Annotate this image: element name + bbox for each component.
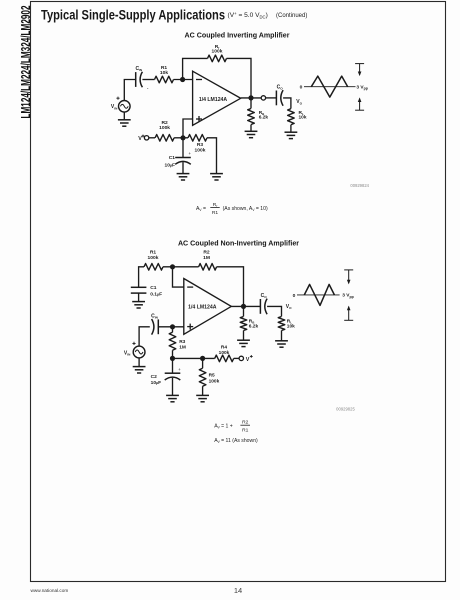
capacitor CIN (circuit 2) (151, 313, 158, 334)
svg-text:AC Coupled Non-Inverting Ampli: AC Coupled Non-Inverting Amplifier (178, 240, 299, 248)
node C : inverting junction (circuit 2) (170, 264, 175, 269)
svg-text:10k: 10k (160, 70, 168, 76)
resistor R1 10k (155, 65, 174, 83)
svg-text:100k: 100k (159, 125, 170, 131)
resistor RB 6.2k (circuit 2) (240, 306, 258, 340)
output terminal circle (261, 96, 265, 100)
wire CO to RL (circuit 2) (267, 306, 281, 316)
ground below VIN (circuit 2) (138, 358, 140, 367)
svg-text:3 Vpp: 3 Vpp (356, 85, 367, 91)
svg-text:R3: R3 (197, 142, 204, 148)
node B : bias junction (180, 135, 185, 140)
wire C1 to ground (182, 162, 184, 173)
svg-text:10k: 10k (287, 323, 295, 329)
svg-text:6.2k: 6.2k (249, 323, 259, 329)
gain formula line 1 (circuit 2) (214, 420, 250, 434)
wire V+ to R2 (149, 137, 156, 139)
wire op-amp output to terminal (241, 97, 262, 99)
source VIN (circuit 2) (124, 342, 145, 358)
page title (41, 7, 307, 22)
svg-text:1M: 1M (203, 255, 210, 261)
wire R4 to V+ terminal (234, 357, 240, 359)
svg-text:AV = 1 +: AV = 1 + (214, 423, 233, 429)
wire Rf to output node (227, 58, 252, 98)
resistor R4 100k (circuit 2) (215, 345, 234, 362)
svg-text:C2: C2 (151, 374, 158, 380)
svg-text:+: + (189, 151, 192, 156)
svg-text:R1: R1 (212, 210, 219, 216)
svg-text:CIN: CIN (135, 66, 142, 72)
svg-text:VO: VO (286, 304, 292, 310)
svg-text:VIN: VIN (124, 351, 131, 357)
wire C2 to ground (172, 378, 174, 395)
resistor R2 100k (circuit 1) (155, 120, 174, 141)
terminal V+ (circuit 2) (239, 355, 253, 363)
svg-text:CO: CO (277, 85, 284, 91)
node D : non-inverting junction (circuit 2) (170, 324, 175, 329)
wire CIN to node D (158, 326, 184, 328)
wire plus input down to bias junction (183, 119, 193, 138)
capacitor C1 0.1uF (circuit 2) (131, 285, 162, 297)
svg-text:LM124/LM224/LM324/LM2902: LM124/LM224/LM324/LM2902 (18, 6, 33, 119)
feedback wire up and across (183, 58, 208, 79)
wire VIN up to CIN (circuit 2) (139, 327, 150, 347)
svg-text:6.2k: 6.2k (259, 115, 269, 121)
svg-text:V: V (246, 357, 250, 363)
svg-text:(V+ = 5.0 VDC): (V+ = 5.0 VDC) (228, 11, 268, 19)
op-amp U1 1/4 LM124A (193, 71, 241, 125)
ground below C1 (circuit 2) (132, 301, 145, 303)
svg-text:CIN: CIN (151, 313, 158, 319)
svg-text:100k: 100k (219, 350, 230, 356)
svg-text:-: - (147, 86, 149, 92)
wire R1 to node A (174, 79, 193, 81)
svg-text:AV = 11 (As shown): AV = 11 (As shown) (214, 438, 258, 444)
capacitor C2 10uF (circuit 2) (151, 358, 182, 386)
svg-text:R1: R1 (150, 250, 157, 256)
resistor R1 100k (circuit 2) (144, 250, 163, 270)
svg-text:R4: R4 (221, 345, 227, 351)
svg-text:10µF: 10µF (164, 162, 175, 168)
wire terminal to CO (265, 97, 276, 99)
svg-text:VIN: VIN (111, 104, 118, 110)
resistor R5 100k (circuit 2) (199, 358, 219, 395)
ground below R5 (196, 394, 209, 396)
svg-text:AV =: AV = (196, 206, 206, 212)
svg-text:R2: R2 (203, 250, 210, 256)
wire R2 to output column (217, 267, 244, 307)
output node (circuit 2) (241, 304, 246, 309)
output node (circuit 1) (248, 95, 253, 100)
wire node E to node F (173, 357, 215, 359)
svg-text:00929824: 00929824 (350, 183, 369, 188)
svg-text:0.1µF: 0.1µF (150, 291, 162, 297)
svg-text:00929825: 00929825 (336, 407, 355, 412)
wire C1 to ground (138, 293, 140, 301)
wire R3 to ground (207, 138, 217, 174)
terminal V+ (circuit 1) (138, 135, 149, 143)
svg-text:R2: R2 (242, 420, 249, 426)
svg-text:C1: C1 (150, 285, 157, 291)
capacitor CIN (circuit 1) (135, 66, 148, 91)
op-amp U2 1/4 LM124A (184, 279, 232, 335)
node F : R4/R5 junction (200, 356, 205, 361)
wire op-amp output to CO (circuit 2) (231, 305, 260, 307)
ground below RB (245, 130, 258, 132)
svg-text:VO: VO (296, 99, 302, 105)
svg-text:R5: R5 (209, 372, 215, 378)
svg-text:1M: 1M (179, 344, 186, 350)
ground below RB (circuit 2) (237, 339, 250, 341)
svg-text:R1: R1 (242, 428, 249, 434)
resistor RL 10k (circuit 1) (288, 109, 307, 132)
ground below VIN (circuit 1) (123, 112, 125, 120)
top-left corner wire (circuit 2) (139, 267, 144, 288)
gain formula (circuit 1) (196, 202, 268, 216)
capacitor C1 10uF (circuit 1) (164, 138, 191, 169)
svg-text:0: 0 (300, 85, 303, 91)
resistor R3 1M (circuit 2) (169, 327, 186, 359)
svg-text:14: 14 (234, 586, 242, 595)
resistor RL 10k (circuit 2) (278, 317, 295, 341)
output waveform (circuit 1) (300, 76, 356, 97)
svg-text:+: + (178, 367, 181, 372)
svg-text:www.national.com: www.national.com (31, 588, 69, 593)
svg-text:(Continued): (Continued) (276, 13, 307, 19)
svg-text:3 Vpp: 3 Vpp (342, 293, 353, 299)
svg-text:100k: 100k (212, 48, 223, 54)
svg-text:0: 0 (293, 293, 296, 299)
output waveform (circuit 2) (293, 284, 340, 305)
ground below C2 (166, 394, 179, 396)
capacitor CO (circuit 1) (276, 85, 283, 106)
wire CIN to R1 (142, 79, 154, 81)
svg-text:CO: CO (261, 293, 268, 299)
svg-text:100k: 100k (148, 255, 159, 261)
svg-text:10µF: 10µF (151, 380, 162, 386)
wire R2 to node B (174, 137, 188, 139)
ground below C1 (177, 173, 190, 175)
wire R1 to node C (163, 266, 199, 268)
wire node C to inverting input (173, 267, 184, 287)
resistor R3 100k (circuit 1) (188, 135, 207, 154)
ground below R3 (210, 173, 223, 175)
ground below RL (285, 131, 298, 133)
svg-text:100k: 100k (209, 378, 220, 384)
svg-text:V: V (138, 136, 142, 142)
3 Vpp dimension arrows (circuit 2) (342, 270, 353, 320)
svg-text:R2: R2 (161, 120, 168, 126)
node E : bias junction (circuit 2) (170, 356, 175, 361)
resistor RB 6.2k (circuit 1) (248, 98, 269, 131)
svg-text:1/4 LM124A: 1/4 LM124A (199, 97, 228, 103)
source VIN (circuit 1) (111, 97, 130, 113)
svg-text:1/4 LM124A: 1/4 LM124A (188, 305, 217, 311)
svg-text:AC Coupled Inverting Amplifier: AC Coupled Inverting Amplifier (185, 32, 290, 40)
ground below RL (circuit 2) (275, 340, 288, 342)
svg-text:10k: 10k (299, 115, 307, 121)
node A : inverting input junction (180, 77, 185, 82)
svg-text:R3: R3 (179, 339, 185, 345)
svg-text:100k: 100k (195, 148, 206, 154)
svg-text:Typical Single-Supply Applicat: Typical Single-Supply Applications (41, 7, 225, 22)
resistor R2 1M (feedback, circuit 2) (199, 250, 217, 270)
wire CO to RL (283, 98, 291, 109)
svg-text:C1: C1 (169, 155, 176, 161)
3 Vpp dimension arrows (circuit 1) (355, 64, 368, 111)
capacitor CO (circuit 2) (260, 293, 267, 314)
svg-text:(As shown, AV = 10): (As shown, AV = 10) (223, 206, 268, 212)
wire VIN to CIN (124, 80, 135, 101)
resistor Rf 100k (feedback) (208, 44, 227, 62)
